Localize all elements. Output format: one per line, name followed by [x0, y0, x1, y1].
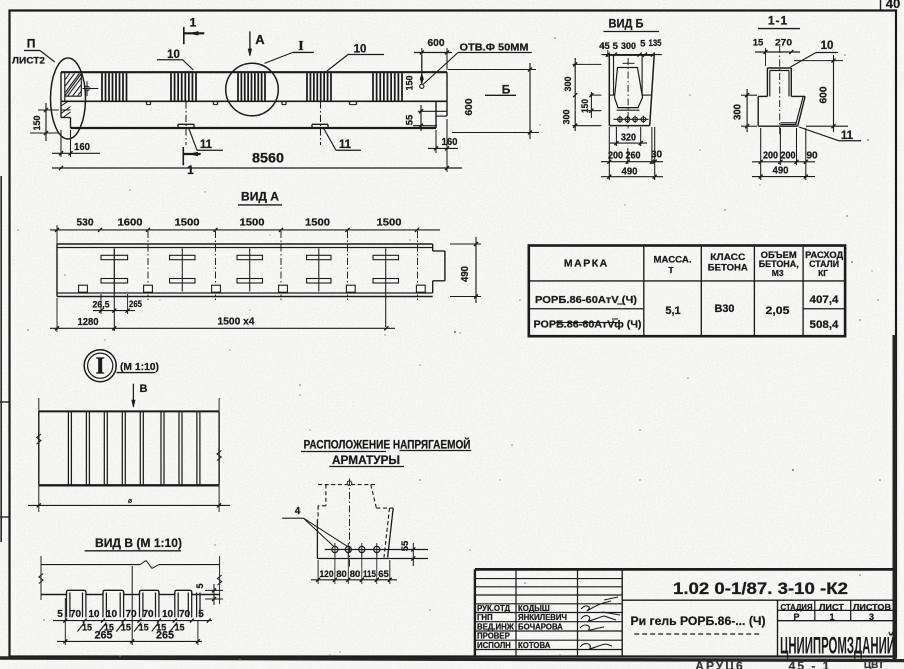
svg-text:КОТОВА: КОТОВА: [518, 641, 551, 650]
dimension 160 right end: [428, 119, 458, 172]
svg-text:I: I: [96, 354, 105, 380]
svg-text:10: 10: [821, 40, 834, 52]
plan plate centrelines: [114, 249, 385, 332]
svg-text:300: 300: [621, 41, 636, 52]
svg-text:600: 600: [463, 98, 475, 115]
svg-text:10: 10: [106, 609, 118, 620]
svg-text:5: 5: [198, 609, 204, 620]
table header texts: [564, 250, 844, 278]
svg-text:1-1: 1-1: [768, 14, 788, 28]
svg-text:5: 5: [57, 609, 63, 620]
view Б title: [603, 17, 659, 32]
detail I view direction В: [132, 383, 148, 407]
svg-text:45: 45: [599, 41, 610, 52]
label П Лист2 with leader: [12, 37, 55, 67]
plan embedded plates upper row: [101, 255, 399, 259]
svg-text:ВИД В (М 1:10): ВИД В (М 1:10): [95, 536, 182, 550]
view В title: [85, 536, 182, 551]
dimension 600 top right of elevation: [414, 37, 452, 71]
svg-text:70: 70: [142, 609, 154, 620]
svg-text:150: 150: [580, 99, 590, 113]
detail I bottom dimension line: [28, 498, 230, 507]
scan dark bands at sheet edges: [0, 335, 904, 661]
svg-text:300: 300: [562, 110, 573, 125]
beam left end hatched corner: [65, 73, 82, 96]
signature squiggles: [580, 597, 620, 649]
section 1-1 top dimensions 15 270: [753, 38, 800, 67]
svg-text:КОДЫШ: КОДЫШ: [518, 604, 550, 613]
svg-text:ЛИСТОВ: ЛИСТОВ: [853, 603, 891, 612]
svg-text:300: 300: [563, 77, 574, 92]
svg-text:490: 490: [622, 166, 638, 178]
shear key hatch group 3: [238, 73, 265, 101]
section 1-1 outline: [758, 68, 805, 126]
view В weld size 15 marks: [78, 623, 185, 633]
shear key hatch group 1: [102, 73, 127, 101]
view Б section outline: [609, 55, 654, 126]
svg-text:11: 11: [339, 139, 352, 151]
svg-text:65: 65: [378, 569, 389, 580]
table row 1 mark text: [535, 294, 637, 306]
oval around beam left end, ref to sheet 2: [51, 58, 86, 139]
prestressing layout section outline: [317, 479, 393, 570]
svg-text:2,05: 2,05: [766, 305, 790, 317]
view Б bottom dimension 320: [610, 127, 647, 146]
svg-text:160: 160: [442, 136, 458, 148]
svg-text:200: 200: [763, 151, 778, 162]
svg-text:М3: М3: [772, 268, 784, 278]
svg-text:МАРКА: МАРКА: [564, 258, 609, 270]
svg-text:70: 70: [125, 609, 137, 620]
svg-text:1.02 0-1/87. 3-10 -К2: 1.02 0-1/87. 3-10 -К2: [673, 580, 848, 598]
svg-text:(М 1:10): (М 1:10): [120, 362, 159, 373]
svg-text:ЦВТ: ЦВТ: [864, 660, 884, 669]
svg-text:15: 15: [82, 623, 92, 633]
svg-text:В: В: [140, 383, 148, 395]
dimension 600 beam height right side: [448, 63, 539, 139]
svg-text:ВЕД.ИНЖ: ВЕД.ИНЖ: [477, 623, 515, 632]
svg-text:1: 1: [187, 163, 194, 177]
svg-text:3: 3: [869, 612, 874, 622]
section 1-1 centreline: [779, 46, 781, 136]
view Б keyway profile: [615, 68, 643, 111]
dimension 160 left end: [52, 130, 100, 157]
svg-text:РАСПОЛОЖЕНИЕ НАПРЯГАЕМОЙ: РАСПОЛОЖЕНИЕ НАПРЯГАЕМОЙ: [304, 439, 471, 452]
svg-text:В30: В30: [715, 303, 735, 315]
view Б bottom dimension 490: [601, 166, 663, 179]
table steel consumption values: [810, 294, 840, 331]
svg-text:15: 15: [174, 623, 184, 633]
svg-text:Ри гель РОРБ.86-... (Ч): Ри гель РОРБ.86-... (Ч): [631, 614, 766, 628]
svg-text:5,1: 5,1: [665, 305, 680, 317]
dimension 8560 overall length: [52, 150, 462, 171]
plan embedded plates lower row: [101, 279, 399, 284]
section mark 1 bottom: [183, 147, 200, 177]
title block signature rows texts: [477, 604, 567, 650]
svg-text:АРМАТУРЫ: АРМАТУРЫ: [332, 455, 400, 467]
view Б strand circles: [614, 116, 649, 123]
dimension 55 right end step: [405, 105, 438, 131]
svg-text:4: 4: [295, 506, 301, 517]
svg-text:ЯНКИЛЕВИЧ: ЯНКИЛЕВИЧ: [518, 613, 567, 622]
detail I corrugated plate drawing: [39, 411, 219, 485]
section 1-1 dimension 600: [794, 55, 848, 132]
svg-text:5: 5: [613, 41, 619, 52]
svg-text:150: 150: [32, 116, 43, 131]
plan dimension 265 265: [93, 294, 143, 314]
svg-text:90: 90: [806, 151, 818, 162]
title block stage sheet columns: [781, 603, 892, 622]
title block organisation name: [780, 632, 895, 659]
svg-text:160: 160: [74, 141, 90, 153]
svg-text:508,4: 508,4: [810, 319, 840, 331]
label 11 right with leader: [324, 129, 361, 151]
prestressing layout bottom dimensions 120 80 80 115 65: [311, 553, 397, 584]
embedded plate 11 tab left: [178, 124, 194, 128]
view А title: [238, 190, 282, 205]
view Б left dimensions 300 300 150: [562, 58, 602, 131]
svg-text:Б: Б: [502, 83, 511, 97]
prestressing strands and 55 dimension: [325, 540, 428, 566]
svg-text:490: 490: [459, 266, 471, 282]
svg-text:ОТВ.Ф 50ММ: ОТВ.Ф 50ММ: [460, 42, 529, 54]
view А plan outline: [57, 244, 445, 297]
view direction arrow А: [248, 31, 265, 56]
svg-text:55: 55: [400, 540, 411, 551]
svg-text:ЦНИИПРОМЗДАНИЙ: ЦНИИПРОМЗДАНИЙ: [780, 632, 895, 659]
left margin fold marks: [0, 176, 10, 542]
svg-text:ВИД А: ВИД А: [241, 190, 279, 204]
beam elevation outline: [61, 72, 447, 128]
svg-text:265: 265: [156, 630, 174, 642]
svg-text:СТАДИЯ: СТАДИЯ: [781, 603, 813, 612]
table row 2 mark text: [534, 319, 642, 331]
embedded plate 11 tab right: [312, 124, 328, 128]
section 1-1 dimension 300: [733, 89, 758, 132]
strand count label 4 with leaders: [282, 506, 347, 547]
svg-text:135: 135: [649, 38, 663, 49]
svg-text:80: 80: [336, 569, 347, 580]
svg-text:КГ: КГ: [818, 268, 828, 278]
beam left lower hatched block: [61, 101, 71, 117]
partial handwriting below frame: [695, 659, 884, 669]
dimension 150 hole position and hole: [405, 55, 424, 91]
svg-text:ø: ø: [128, 498, 133, 505]
dash-dot centrelines of tabs: [186, 102, 321, 146]
svg-text:МАССА.: МАССА.: [654, 255, 692, 266]
svg-text:320: 320: [621, 133, 636, 144]
svg-text:1500: 1500: [377, 217, 402, 229]
view Б bottom dimensions 200 260 30: [601, 127, 663, 180]
small tick pairs under top band: [147, 101, 357, 104]
svg-text:1: 1: [829, 612, 834, 622]
plan grid dash-dot lines: [148, 231, 418, 300]
detail I extension lines with break marks: [37, 398, 222, 512]
svg-text:1500: 1500: [305, 217, 330, 229]
section 1-1 bottom dimension 490: [752, 165, 815, 179]
svg-text:15: 15: [753, 38, 764, 49]
centre cross marker at beam left end: [83, 81, 99, 96]
svg-text:80: 80: [350, 569, 361, 580]
svg-text:407,4: 407,4: [810, 294, 840, 306]
svg-text:265: 265: [129, 299, 142, 309]
plan anchor squares on bottom edge: [79, 285, 426, 292]
view marker Б: [485, 83, 516, 97]
svg-text:45 - 1: 45 - 1: [789, 659, 832, 669]
table merged values: [665, 303, 789, 317]
view В bottom dimensions 265 265: [57, 566, 202, 645]
svg-text:5: 5: [640, 39, 646, 50]
svg-text:5: 5: [195, 583, 205, 588]
view В top dimension line with break: [39, 556, 222, 604]
svg-text:1280: 1280: [78, 316, 99, 328]
label 10 left with leader: [157, 49, 193, 70]
view В corrugated profile: [41, 590, 220, 617]
svg-text:265: 265: [95, 630, 113, 642]
svg-text:10: 10: [354, 44, 367, 56]
section 1-1 label 10 with leader: [791, 40, 839, 67]
svg-text:70: 70: [70, 609, 82, 620]
detail I bubble and scale note: [84, 350, 159, 382]
view А top dimensions 530 1600 1500x4: [50, 217, 440, 245]
svg-text:115: 115: [363, 569, 377, 580]
specification table grid: [529, 246, 845, 337]
svg-text:1600: 1600: [118, 217, 143, 229]
svg-text:600: 600: [818, 86, 830, 103]
dimension 150 left end vertical: [30, 103, 59, 141]
svg-text:600: 600: [428, 37, 445, 49]
svg-text:1500: 1500: [240, 217, 265, 229]
svg-text:30: 30: [651, 150, 663, 161]
view Б centreline: [622, 58, 634, 129]
label 11 left with leader: [189, 129, 223, 151]
svg-text:200: 200: [608, 151, 623, 162]
svg-text:1500 x4: 1500 x4: [218, 316, 255, 328]
hole label отв ф 50мм with leader: [424, 42, 532, 85]
svg-text:11: 11: [200, 139, 213, 151]
svg-text:1500: 1500: [175, 217, 200, 229]
title block outer and grid: [475, 569, 894, 656]
svg-text:260: 260: [626, 151, 641, 162]
plan dimension 490 right side: [450, 237, 481, 303]
svg-text:Р: Р: [793, 612, 799, 622]
svg-text:ЛИСТ2: ЛИСТ2: [12, 56, 45, 67]
svg-text:270: 270: [775, 38, 792, 49]
svg-text:300: 300: [733, 104, 744, 120]
detail mark I with leader: [265, 39, 314, 63]
svg-text:Т: Т: [668, 265, 674, 275]
svg-text:РУК.ОТД: РУК.ОТД: [477, 604, 511, 613]
svg-text:А: А: [255, 32, 265, 47]
svg-text:120: 120: [320, 569, 334, 580]
title block subject name: [631, 614, 766, 634]
svg-text:10: 10: [162, 609, 174, 620]
view В bump height dimension 5: [195, 583, 223, 605]
view Б top dimensions 45 5 300 5 135: [599, 38, 662, 57]
svg-text:530: 530: [77, 217, 94, 229]
svg-text:БОЧАРОВА: БОЧАРОВА: [518, 623, 563, 632]
svg-text:200: 200: [781, 151, 796, 162]
svg-text:26,5: 26,5: [93, 300, 110, 310]
svg-text:РОРБ.86-60АтVф (Ч): РОРБ.86-60АтVф (Ч): [534, 319, 642, 331]
svg-text:10: 10: [88, 609, 100, 620]
section mark 1 top: [184, 16, 205, 45]
svg-text:490: 490: [773, 165, 789, 177]
top-right corner sheet number 40: [881, 0, 901, 11]
svg-text:70: 70: [179, 609, 191, 620]
plan dimensions 1280 and 1500x4: [50, 298, 395, 332]
svg-text:ВИД Б: ВИД Б: [609, 17, 644, 31]
shear key hatch group 5: [373, 73, 402, 101]
svg-text:150: 150: [405, 76, 416, 91]
svg-text:ПРОВЕР: ПРОВЕР: [477, 632, 510, 641]
detail circle around hatch group 3: [226, 63, 279, 116]
svg-text:8560: 8560: [252, 150, 284, 166]
shear key hatch group 2: [171, 73, 196, 101]
section 1-1 title: [758, 14, 800, 29]
svg-text:15: 15: [121, 623, 131, 633]
label 10 right with leader: [327, 44, 384, 72]
view В tooth dimensions row: [53, 609, 212, 623]
section 1-1 label 11 with leader: [799, 127, 861, 142]
svg-text:55: 55: [405, 114, 416, 125]
svg-text:15: 15: [139, 623, 149, 633]
svg-text:ЛИСТ: ЛИСТ: [819, 603, 844, 612]
prestressing layout title: [301, 439, 471, 468]
svg-text:П: П: [27, 37, 36, 51]
shear key hatch group 4: [307, 73, 331, 101]
svg-text:1: 1: [190, 16, 197, 30]
svg-text:КЛАСС: КЛАСС: [710, 252, 745, 263]
svg-text:АРУЦ6: АРУЦ6: [695, 659, 744, 669]
svg-text:БЕТОНА: БЕТОНА: [708, 263, 748, 274]
svg-text:40: 40: [886, 0, 900, 11]
section 1-1 bottom dimensions 200 200 90: [752, 128, 818, 180]
svg-text:ИСПОЛН: ИСПОЛН: [477, 641, 511, 650]
